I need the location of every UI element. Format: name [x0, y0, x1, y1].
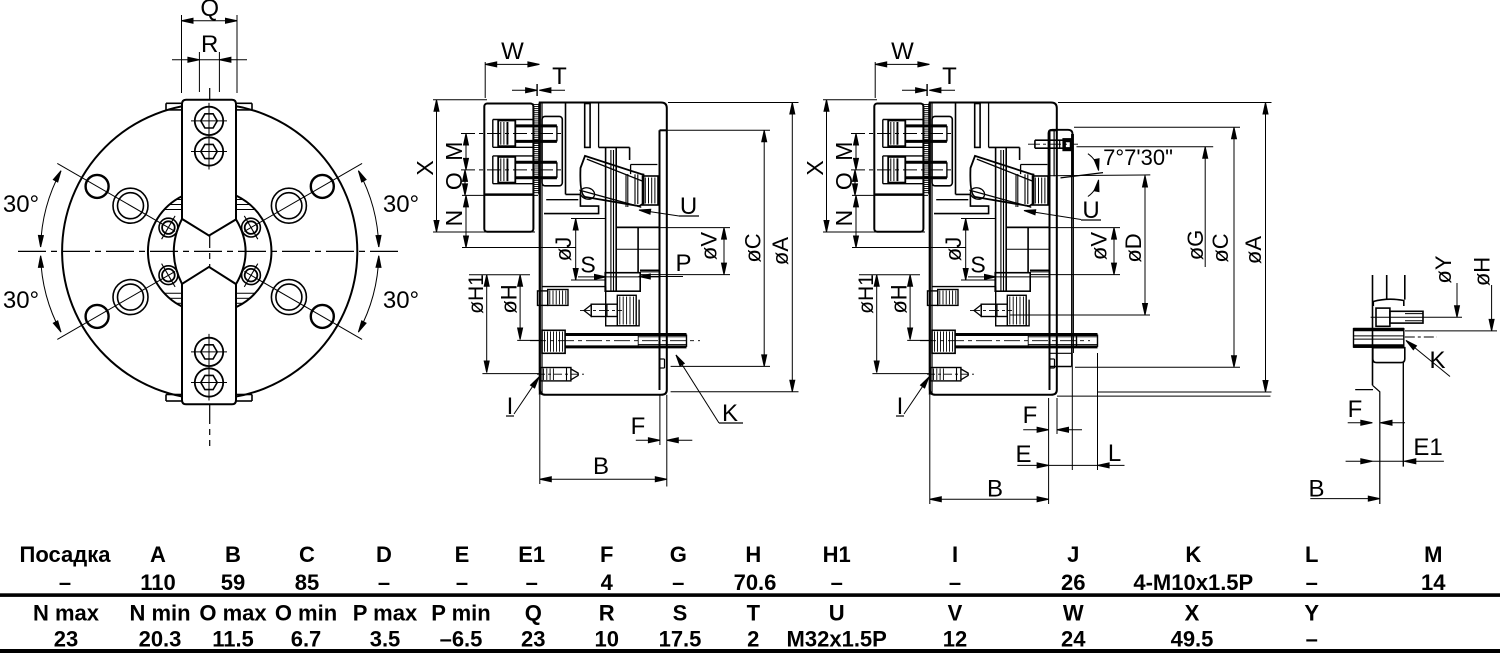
- svg-text:E1: E1: [1413, 434, 1442, 461]
- svg-text:øA: øA: [768, 237, 793, 265]
- jaw guide tabs: [166, 102, 182, 104]
- svg-text:3.5: 3.5: [370, 627, 401, 652]
- svg-text:F: F: [600, 542, 613, 567]
- E1 dimension: [1346, 460, 1373, 462]
- svg-text:4: 4: [601, 570, 614, 595]
- svg-text:X: X: [1185, 601, 1200, 626]
- svg-text:øH: øH: [1470, 257, 1495, 286]
- P dimension arrow: [639, 276, 683, 278]
- svg-text:L: L: [1305, 542, 1318, 567]
- T-slot upper: [585, 104, 590, 148]
- svg-text:O: O: [441, 172, 467, 190]
- svg-text:øG: øG: [1183, 230, 1208, 261]
- svg-text:T: T: [747, 601, 761, 626]
- serration interface band: [532, 104, 534, 195]
- wedge body: [580, 156, 643, 206]
- bolt centerline to oY: [1371, 316, 1462, 318]
- jaw screw bottom 2: [195, 368, 223, 396]
- table divider line 1: [0, 594, 1500, 597]
- hub circle arcs: [237, 196, 272, 307]
- cam holes small r130: [86, 175, 109, 198]
- svg-text:E1: E1: [518, 542, 545, 567]
- svg-text:N max: N max: [33, 601, 100, 626]
- W dimension: [484, 62, 486, 98]
- svg-text:C: C: [299, 542, 315, 567]
- B dimension view2: [929, 395, 931, 504]
- guide step outline: [544, 194, 599, 213]
- dia V dimension: [616, 227, 730, 229]
- S dimension: [578, 276, 606, 278]
- svg-text:–: –: [831, 570, 843, 595]
- body interior line: [631, 164, 658, 166]
- svg-text:–: –: [378, 570, 390, 595]
- svg-text:øC: øC: [1208, 233, 1233, 262]
- svg-text:Q: Q: [525, 601, 542, 626]
- svg-text:–: –: [672, 570, 684, 595]
- dia C dimension view2: [1074, 126, 1240, 128]
- svg-text:øD: øD: [1121, 233, 1146, 262]
- T-key bolt shank: [1390, 311, 1423, 323]
- svg-text:59: 59: [221, 570, 245, 595]
- svg-text:14: 14: [1421, 570, 1446, 595]
- svg-text:12: 12: [943, 627, 967, 652]
- svg-text:F: F: [1348, 396, 1363, 423]
- jaw screw bottom 1: [195, 338, 223, 366]
- horizontal centerline: [18, 250, 402, 252]
- svg-text:–: –: [1306, 627, 1318, 652]
- svg-text:F: F: [1023, 402, 1038, 429]
- jaw nut tube upper: [1372, 275, 1374, 385]
- dia A dimension: [668, 102, 799, 104]
- svg-text:K: K: [1185, 542, 1201, 567]
- shaft below: [1402, 363, 1404, 467]
- wedge pocket top: [598, 104, 600, 148]
- mount bolt K shaft: [565, 333, 686, 336]
- svg-text:A: A: [150, 542, 166, 567]
- svg-text:øJ: øJ: [551, 237, 576, 261]
- table bottom line: [0, 650, 1500, 653]
- N dimension: [462, 247, 576, 249]
- body front face: [539, 103, 541, 395]
- svg-text:G: G: [670, 542, 687, 567]
- svg-text:E: E: [455, 542, 470, 567]
- jaw screw top 2: [195, 137, 223, 165]
- washer centerline: [1405, 336, 1437, 338]
- 30deg diagonal lines: [57, 163, 175, 231]
- pinion knurl: [548, 290, 568, 306]
- svg-text:øC: øC: [741, 233, 766, 262]
- svg-text:W: W: [1063, 601, 1084, 626]
- vertical centerline: [209, 88, 211, 446]
- serration lines top: [176, 199, 182, 201]
- svg-text:H1: H1: [823, 542, 851, 567]
- jaw screw top 1: [195, 107, 223, 135]
- svg-text:4-M10x1.5P: 4-M10x1.5P: [1133, 570, 1253, 595]
- svg-text:øH: øH: [497, 284, 522, 313]
- E extension line: [1071, 353, 1073, 470]
- dia J dimension: [571, 218, 606, 220]
- svg-text:R: R: [201, 31, 218, 58]
- X dimension: [433, 99, 487, 101]
- camlock stud: [1035, 139, 1063, 141]
- B dimension view1: [539, 395, 541, 484]
- dia D dimension: [1010, 314, 1150, 316]
- nut block: [1373, 348, 1405, 363]
- svg-text:20.3: 20.3: [139, 627, 182, 652]
- flange relief notch: [660, 358, 665, 360]
- dia Y dimension: [1456, 283, 1458, 317]
- dia H dimension detail: [1405, 330, 1497, 332]
- locating pin I: [540, 368, 571, 381]
- jaw mounting screw 2: [493, 156, 557, 184]
- draw sleeve: [605, 148, 607, 291]
- jaw block outline: [484, 104, 533, 232]
- svg-text:Посадка: Посадка: [20, 542, 112, 567]
- svg-text:110: 110: [140, 570, 176, 595]
- svg-text:X: X: [412, 160, 438, 175]
- dia C dimension: [660, 129, 771, 131]
- svg-text:2: 2: [747, 627, 759, 652]
- pinion pocket: [542, 286, 606, 288]
- L extension line from bolt tip: [1097, 353, 1099, 470]
- svg-text:23: 23: [54, 627, 78, 652]
- svg-text:M32x1.5P: M32x1.5P: [787, 627, 887, 652]
- Q dimension: [181, 15, 183, 93]
- backplate flange interface line: [659, 130, 661, 390]
- F dimension view1: [659, 395, 661, 445]
- R dimension: [198, 52, 200, 92]
- 30deg dimension arcs: [41, 171, 61, 247]
- svg-text:24: 24: [1061, 627, 1086, 652]
- svg-text:K: K: [1429, 347, 1445, 374]
- mount screw holes r47.7: [159, 218, 178, 237]
- svg-text:øY: øY: [1431, 255, 1456, 283]
- B dimension detail: [1310, 498, 1380, 500]
- svg-text:30°: 30°: [3, 287, 39, 314]
- svg-text:30°: 30°: [383, 287, 419, 314]
- O dimension: [462, 194, 538, 196]
- svg-text:M: M: [441, 142, 467, 161]
- bottom jaw: [182, 267, 236, 404]
- svg-text:O max: O max: [199, 601, 267, 626]
- view2 mechanism copy: [802, 38, 1120, 420]
- svg-text:J: J: [1067, 542, 1079, 567]
- svg-text:S: S: [673, 601, 688, 626]
- jaw mounting screw 1: [493, 120, 557, 148]
- svg-text:N: N: [441, 210, 467, 227]
- svg-text:U: U: [829, 601, 845, 626]
- jaw block divider: [484, 193, 533, 195]
- dia A dimension view2: [1058, 102, 1272, 104]
- dia H dimension: [519, 275, 521, 340]
- center bore arcs: [174, 219, 182, 284]
- wedge roller: [579, 186, 596, 201]
- E L dimension: [1017, 464, 1048, 466]
- pinion gear disc: [617, 295, 636, 326]
- svg-text:E: E: [1015, 441, 1031, 468]
- svg-text:F: F: [631, 413, 646, 440]
- svg-text:11.5: 11.5: [212, 627, 254, 652]
- svg-text:B: B: [225, 542, 241, 567]
- svg-text:–: –: [59, 570, 71, 595]
- svg-text:øH1: øH1: [465, 274, 488, 314]
- top jaw: [182, 100, 236, 236]
- svg-text:–: –: [526, 570, 538, 595]
- svg-text:øV: øV: [697, 232, 722, 260]
- adjusting screw: [584, 305, 591, 316]
- M dimension: [465, 134, 467, 170]
- svg-text:70.6: 70.6: [734, 570, 777, 595]
- F dimension detail: [1348, 422, 1373, 424]
- dia G dimension: [1077, 146, 1214, 148]
- svg-text:17.5: 17.5: [659, 627, 702, 652]
- svg-text:O min: O min: [275, 601, 337, 626]
- svg-text:R: R: [599, 601, 615, 626]
- pinion head: [538, 291, 548, 306]
- chuck body outline section: [540, 103, 667, 395]
- chuck body outer circle: [62, 104, 357, 399]
- pinion holes double r91: [113, 188, 148, 223]
- wedge internal diagonals: [587, 159, 644, 181]
- svg-text:N min: N min: [129, 601, 190, 626]
- cap over bolt: [1373, 299, 1404, 306]
- svg-text:Y: Y: [1304, 601, 1319, 626]
- svg-text:30°: 30°: [3, 191, 39, 218]
- U thread section: [643, 176, 659, 205]
- svg-text:I: I: [952, 542, 958, 567]
- shaft left with jog: [1373, 385, 1380, 504]
- mount bolt K centerline: [530, 340, 700, 342]
- dia H1 dimension: [469, 274, 530, 276]
- svg-text:H: H: [745, 542, 761, 567]
- F dimension view2: [1056, 398, 1058, 434]
- svg-text:T: T: [552, 63, 567, 90]
- sleeve nut block: [605, 273, 640, 292]
- K bolt threaded tip extension: [1077, 333, 1098, 336]
- master jaw slot block: [542, 116, 562, 185]
- svg-text:10: 10: [594, 627, 618, 652]
- svg-text:B: B: [1308, 476, 1324, 503]
- svg-text:6.7: 6.7: [291, 627, 322, 652]
- serration lines bottom: [164, 292, 182, 294]
- svg-text:M: M: [1424, 542, 1442, 567]
- svg-text:7°7'30": 7°7'30": [1103, 145, 1173, 170]
- svg-text:–: –: [949, 570, 961, 595]
- drawnut verticals: [625, 174, 627, 207]
- svg-text:B: B: [987, 476, 1003, 503]
- T-key bolt head: [1376, 308, 1390, 326]
- svg-text:V: V: [948, 601, 963, 626]
- svg-text:30°: 30°: [383, 191, 419, 218]
- svg-text:S: S: [580, 252, 595, 278]
- svg-text:49.5: 49.5: [1171, 627, 1214, 652]
- svg-text:23: 23: [521, 627, 545, 652]
- svg-text:W: W: [501, 38, 524, 65]
- svg-text:øA: øA: [1241, 236, 1266, 264]
- svg-text:–6.5: –6.5: [440, 627, 483, 652]
- svg-text:P min: P min: [431, 601, 491, 626]
- washer stack: [1354, 328, 1404, 331]
- mount bolt K head: [542, 330, 565, 353]
- svg-text:85: 85: [295, 570, 319, 595]
- svg-text:P: P: [675, 250, 691, 277]
- adapter foot: [1049, 366, 1072, 368]
- adapter taper face: [1071, 134, 1073, 367]
- svg-text:P max: P max: [353, 601, 418, 626]
- svg-text:D: D: [376, 542, 392, 567]
- svg-text:B: B: [593, 453, 609, 480]
- svg-text:26: 26: [1061, 570, 1085, 595]
- camlock adapter cap: [1049, 130, 1073, 177]
- T dimension: [536, 84, 538, 96]
- svg-text:–: –: [456, 570, 468, 595]
- svg-text:L: L: [1108, 440, 1121, 467]
- svg-text:Q: Q: [200, 0, 219, 22]
- svg-text:–: –: [1306, 570, 1318, 595]
